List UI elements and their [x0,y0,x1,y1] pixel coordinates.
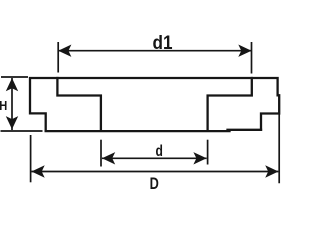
svg-text:D: D [150,174,159,193]
svg-text:H: H [0,98,7,113]
svg-text:d: d [156,143,163,160]
svg-text:d1: d1 [153,32,173,54]
